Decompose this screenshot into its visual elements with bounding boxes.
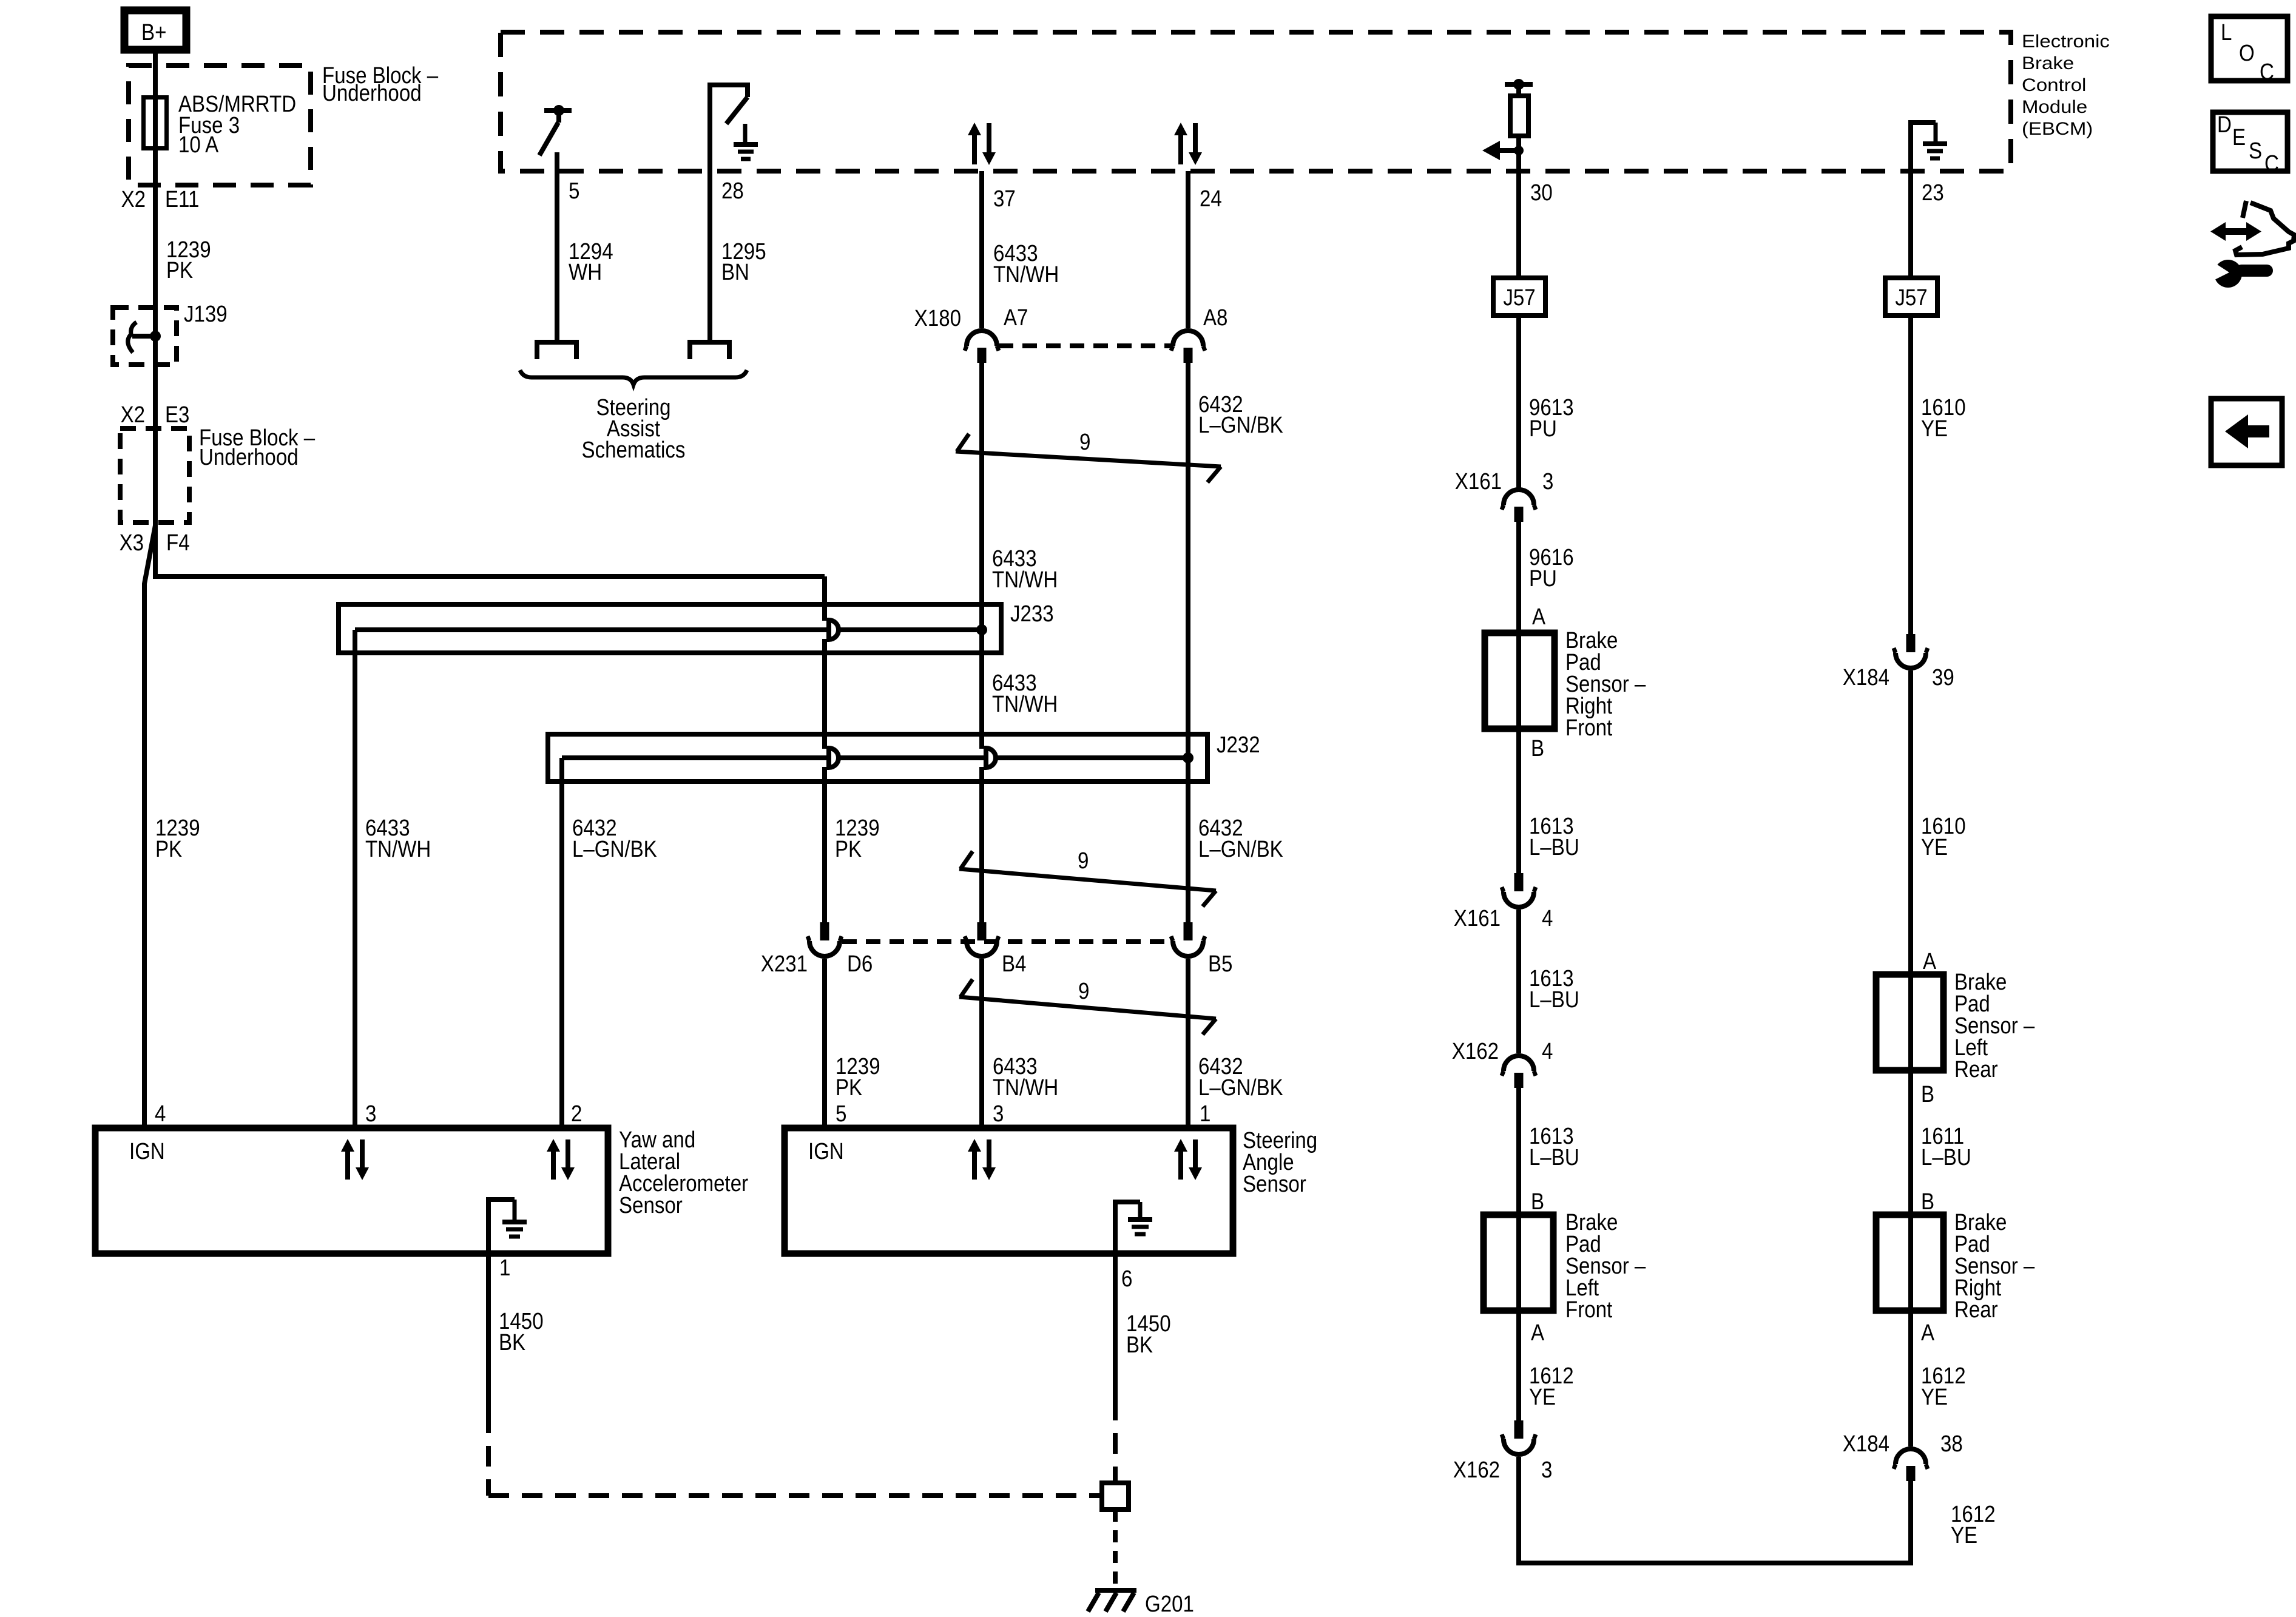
svg-text:PK: PK	[155, 837, 182, 862]
wire 1613 L-BU (1)	[1516, 729, 1521, 873]
svg-text:X184: X184	[1843, 1431, 1889, 1457]
svg-text:E11: E11	[165, 187, 199, 212]
fuse ABS/MRRTD Fuse 3 10A	[144, 98, 167, 149]
svg-text:L–BU: L–BU	[1529, 835, 1579, 860]
junction connector square above G201	[1102, 1483, 1129, 1510]
svg-text:B+: B+	[141, 20, 166, 46]
svg-text:4: 4	[1542, 906, 1553, 931]
svg-text:3: 3	[1542, 469, 1553, 495]
svg-text:Rear: Rear	[1954, 1297, 1998, 1323]
ground symbol in steering box	[1115, 1202, 1152, 1251]
svg-text:C: C	[2260, 59, 2274, 85]
resistor and arrow at EBCM pin 30	[1482, 79, 1533, 171]
wire 6433 branch from J233 down to yaw pin 3	[353, 630, 357, 1128]
twisted pair symbol 9 (middle)	[959, 848, 1216, 906]
svg-text:S: S	[2249, 138, 2262, 164]
svg-text:3: 3	[993, 1101, 1004, 1127]
svg-text:J233: J233	[1010, 601, 1054, 627]
svg-text:28: 28	[721, 178, 744, 204]
svg-text:Underhood: Underhood	[199, 445, 299, 470]
svg-text:E3: E3	[165, 402, 189, 428]
svg-text:F4: F4	[166, 530, 190, 556]
svg-text:30: 30	[1530, 180, 1553, 206]
fuse block underhood dashed box 2	[120, 428, 189, 522]
svg-text:23: 23	[1922, 180, 1944, 206]
svg-text:Electronic: Electronic	[2022, 32, 2110, 52]
svg-text:A8: A8	[1203, 305, 1227, 331]
svg-text:YE: YE	[1921, 1385, 1948, 1410]
wire 9616 PU	[1516, 522, 1521, 633]
connector X184 39	[1894, 634, 1928, 668]
svg-text:J57: J57	[1503, 285, 1535, 311]
svg-text:(EBCM): (EBCM)	[2022, 119, 2093, 139]
svg-text:X2: X2	[121, 402, 145, 428]
svg-text:L–GN/BK: L–GN/BK	[1198, 837, 1283, 862]
svg-text:X162: X162	[1453, 1457, 1500, 1483]
svg-text:10 A: 10 A	[178, 132, 219, 158]
svg-text:J57: J57	[1895, 285, 1927, 311]
svg-text:TN/WH: TN/WH	[992, 692, 1058, 717]
connector X231 D6	[808, 922, 842, 956]
svg-text:O: O	[2239, 41, 2255, 66]
svg-text:BK: BK	[499, 1330, 525, 1355]
svg-text:37: 37	[993, 186, 1016, 212]
arrows in steering box pin 3	[968, 1139, 996, 1180]
svg-text:IGN: IGN	[129, 1139, 165, 1164]
svg-text:E: E	[2232, 125, 2246, 150]
svg-text:1: 1	[1200, 1101, 1210, 1127]
wire 1239 PK vertical to X231 D6	[822, 576, 827, 621]
splice pack J233	[339, 601, 1054, 653]
svg-text:Sensor: Sensor	[619, 1193, 683, 1218]
svg-text:TN/WH: TN/WH	[993, 262, 1059, 288]
twisted pair symbol 9 (top)	[956, 430, 1221, 482]
svg-text:B: B	[1531, 1189, 1544, 1215]
svg-text:4: 4	[1542, 1039, 1553, 1064]
wire EBCM pin 37 / 6433 TN/WH	[979, 171, 984, 328]
svg-text:X161: X161	[1454, 906, 1501, 931]
wire EBCM pin 23 to J57	[1908, 171, 1913, 278]
fuse block underhood dashed box 1	[129, 66, 311, 185]
svg-text:B5: B5	[1208, 951, 1232, 977]
svg-text:X184: X184	[1843, 665, 1889, 690]
dashed harness line X231	[842, 939, 1171, 944]
svg-text:L–GN/BK: L–GN/BK	[1198, 413, 1283, 438]
svg-text:1: 1	[499, 1255, 510, 1281]
svg-text:C: C	[2264, 151, 2279, 177]
svg-text:YE: YE	[1921, 835, 1948, 860]
wire 1613 L-BU (3)	[1516, 1088, 1521, 1215]
diagnostic harness icon (double arrow, hood outline, wrench)	[2209, 201, 2294, 288]
brace Steering Assist Schematics	[520, 370, 747, 385]
svg-text:4: 4	[155, 1101, 166, 1127]
svg-text:B: B	[1921, 1189, 1934, 1215]
svg-text:PK: PK	[836, 1075, 862, 1101]
svg-text:9: 9	[1078, 979, 1089, 1004]
wire 1610 YE	[1908, 316, 1913, 634]
connector X180 A7	[965, 331, 999, 363]
DESC box icon	[2213, 112, 2288, 177]
svg-text:TN/WH: TN/WH	[365, 837, 431, 862]
connector X231 B5	[1171, 922, 1205, 956]
LOC box icon	[2211, 16, 2288, 85]
svg-text:2: 2	[571, 1101, 582, 1127]
brake pad sensor right rear box	[1876, 1210, 2035, 1323]
svg-text:X2: X2	[121, 187, 146, 212]
Steering Angle Sensor box	[785, 1128, 1233, 1254]
back arrow box icon	[2211, 399, 2282, 465]
bidirectional arrows at EBCM pin 24	[1174, 123, 1202, 165]
wire EBCM pin 30 to J57	[1516, 171, 1521, 278]
svg-text:WH: WH	[569, 260, 602, 285]
svg-text:L–BU: L–BU	[1529, 1145, 1579, 1170]
svg-text:24: 24	[1200, 186, 1222, 212]
svg-text:TN/WH: TN/WH	[992, 567, 1058, 593]
svg-text:L–GN/BK: L–GN/BK	[572, 837, 657, 862]
arrows in steering box pin 1	[1174, 1139, 1202, 1180]
splice J139 symbol	[128, 322, 161, 353]
svg-text:Front: Front	[1565, 1297, 1613, 1323]
wire 9613 PU	[1516, 316, 1521, 488]
svg-text:5: 5	[569, 178, 579, 204]
splice J57 (right)	[1885, 278, 1937, 316]
svg-text:X3: X3	[120, 530, 144, 556]
svg-text:Underhood: Underhood	[322, 81, 422, 106]
wire 6432 branch from J232 down to yaw pin 2	[559, 758, 564, 1128]
svg-text:38: 38	[1940, 1431, 1963, 1457]
connector X231 B4	[965, 922, 999, 956]
connector X162 4	[1502, 1056, 1536, 1088]
connector X184 38	[1894, 1449, 1928, 1481]
out-connector below pin 5	[537, 342, 576, 359]
svg-text:A7: A7	[1004, 305, 1028, 331]
svg-text:D6: D6	[847, 951, 873, 977]
svg-text:A: A	[1923, 949, 1937, 974]
svg-text:X231: X231	[761, 951, 808, 977]
dashed harness line X180	[999, 343, 1171, 348]
svg-text:YE: YE	[1529, 1385, 1556, 1410]
arrows in yaw box pin 3	[341, 1139, 369, 1180]
wire 1610 YE (2)	[1908, 670, 1913, 974]
wire EBCM pin 24 / 6432 L-GN/BK	[1186, 171, 1190, 328]
svg-text:J139: J139	[184, 302, 228, 327]
svg-text:6: 6	[1121, 1266, 1132, 1292]
svg-text:B4: B4	[1002, 951, 1026, 977]
svg-text:X162: X162	[1452, 1039, 1499, 1064]
wire F4 slant down to 1239 PK feed of yaw sensor	[144, 525, 155, 1128]
wire 6433 below A7 down to X231 B4	[979, 363, 984, 749]
svg-text:TN/WH: TN/WH	[993, 1075, 1058, 1101]
svg-text:J232: J232	[1217, 732, 1260, 758]
svg-text:Sensor: Sensor	[1243, 1172, 1306, 1197]
svg-text:A: A	[1921, 1320, 1935, 1346]
wire 1613 L-BU (2)	[1516, 910, 1521, 1053]
bidirectional arrows at EBCM pin 37	[968, 123, 996, 165]
svg-text:PK: PK	[166, 258, 193, 283]
arrows in yaw box pin 2	[547, 1139, 575, 1180]
svg-text:9: 9	[1078, 848, 1089, 874]
svg-text:L: L	[2221, 20, 2232, 46]
wire F4 branch right to steering angle feed	[155, 522, 825, 576]
wire EBCM pin 5	[555, 152, 559, 340]
splice J57 (left)	[1493, 278, 1545, 316]
svg-text:9: 9	[1079, 430, 1090, 455]
svg-text:A: A	[1532, 604, 1546, 630]
svg-text:G201: G201	[1145, 1592, 1194, 1617]
svg-text:Brake: Brake	[2022, 53, 2074, 73]
svg-text:B: B	[1531, 736, 1544, 761]
out-connector below pin 28	[690, 342, 729, 359]
svg-text:B: B	[1921, 1082, 1934, 1107]
svg-text:YE: YE	[1921, 416, 1948, 442]
Yaw and Lateral Accelerometer Sensor box	[95, 1128, 608, 1254]
wire B+ to fuse block and down through J139 to E3/F4	[153, 53, 158, 527]
svg-text:L–BU: L–BU	[1921, 1145, 1971, 1170]
ground symbol in yaw box	[488, 1200, 527, 1251]
svg-text:Module: Module	[2022, 97, 2087, 117]
svg-text:PU: PU	[1529, 566, 1557, 592]
svg-text:3: 3	[1541, 1457, 1552, 1483]
connector X180 A8	[1171, 331, 1205, 363]
svg-text:YE: YE	[1951, 1523, 1977, 1548]
svg-text:Front: Front	[1565, 715, 1613, 741]
svg-text:Schematics: Schematics	[582, 437, 686, 463]
splice J139 dashed box	[113, 308, 177, 365]
brake pad sensor right front box	[1485, 628, 1646, 741]
svg-text:L–BU: L–BU	[1529, 987, 1579, 1013]
svg-text:PK: PK	[835, 837, 862, 862]
connector X161 4	[1502, 873, 1536, 907]
wire 1612 YE right	[1908, 1311, 1913, 1447]
svg-text:D: D	[2217, 112, 2232, 138]
connector X162 3	[1502, 1420, 1536, 1454]
wires below X231 to steering angle sensor	[822, 959, 827, 1128]
wire steering pin 6 / 1450 BK	[1113, 1254, 1118, 1400]
svg-text:Control: Control	[2022, 75, 2086, 95]
svg-text:Rear: Rear	[1954, 1057, 1998, 1082]
wire yaw pin 1 / 1450 BK	[486, 1254, 491, 1413]
brake pad sensor left front box	[1484, 1210, 1646, 1323]
twisted pair symbol 9 (lower)	[959, 979, 1216, 1035]
svg-text:X180: X180	[914, 306, 961, 331]
splice pack J232	[548, 732, 1260, 781]
wire 1611 L-BU	[1908, 1070, 1913, 1215]
wire X162-3 to X184-38 bottom run	[1519, 1457, 1911, 1563]
wire 6432 below A8 down to X231 B5	[1186, 363, 1190, 922]
B+ battery feed box	[124, 10, 186, 50]
svg-text:BK: BK	[1126, 1332, 1153, 1358]
svg-text:39: 39	[1932, 665, 1954, 690]
svg-text:PU: PU	[1529, 416, 1557, 442]
svg-text:L–GN/BK: L–GN/BK	[1198, 1075, 1283, 1101]
brake pad sensor left rear box	[1876, 970, 2035, 1082]
svg-text:IGN: IGN	[808, 1139, 844, 1164]
svg-text:5: 5	[836, 1101, 846, 1127]
connector X161 3	[1502, 490, 1536, 522]
ground G201	[1088, 1590, 1194, 1617]
switch symbol at EBCM pin 5	[539, 105, 572, 155]
svg-text:X161: X161	[1455, 469, 1502, 495]
wire 1612 YE left	[1516, 1311, 1521, 1420]
svg-text:A: A	[1531, 1320, 1545, 1346]
svg-text:BN: BN	[721, 260, 749, 285]
ground at EBCM pin 23	[1911, 123, 1947, 171]
switch and ground at EBCM pin 28	[710, 85, 758, 340]
svg-text:3: 3	[365, 1101, 376, 1127]
